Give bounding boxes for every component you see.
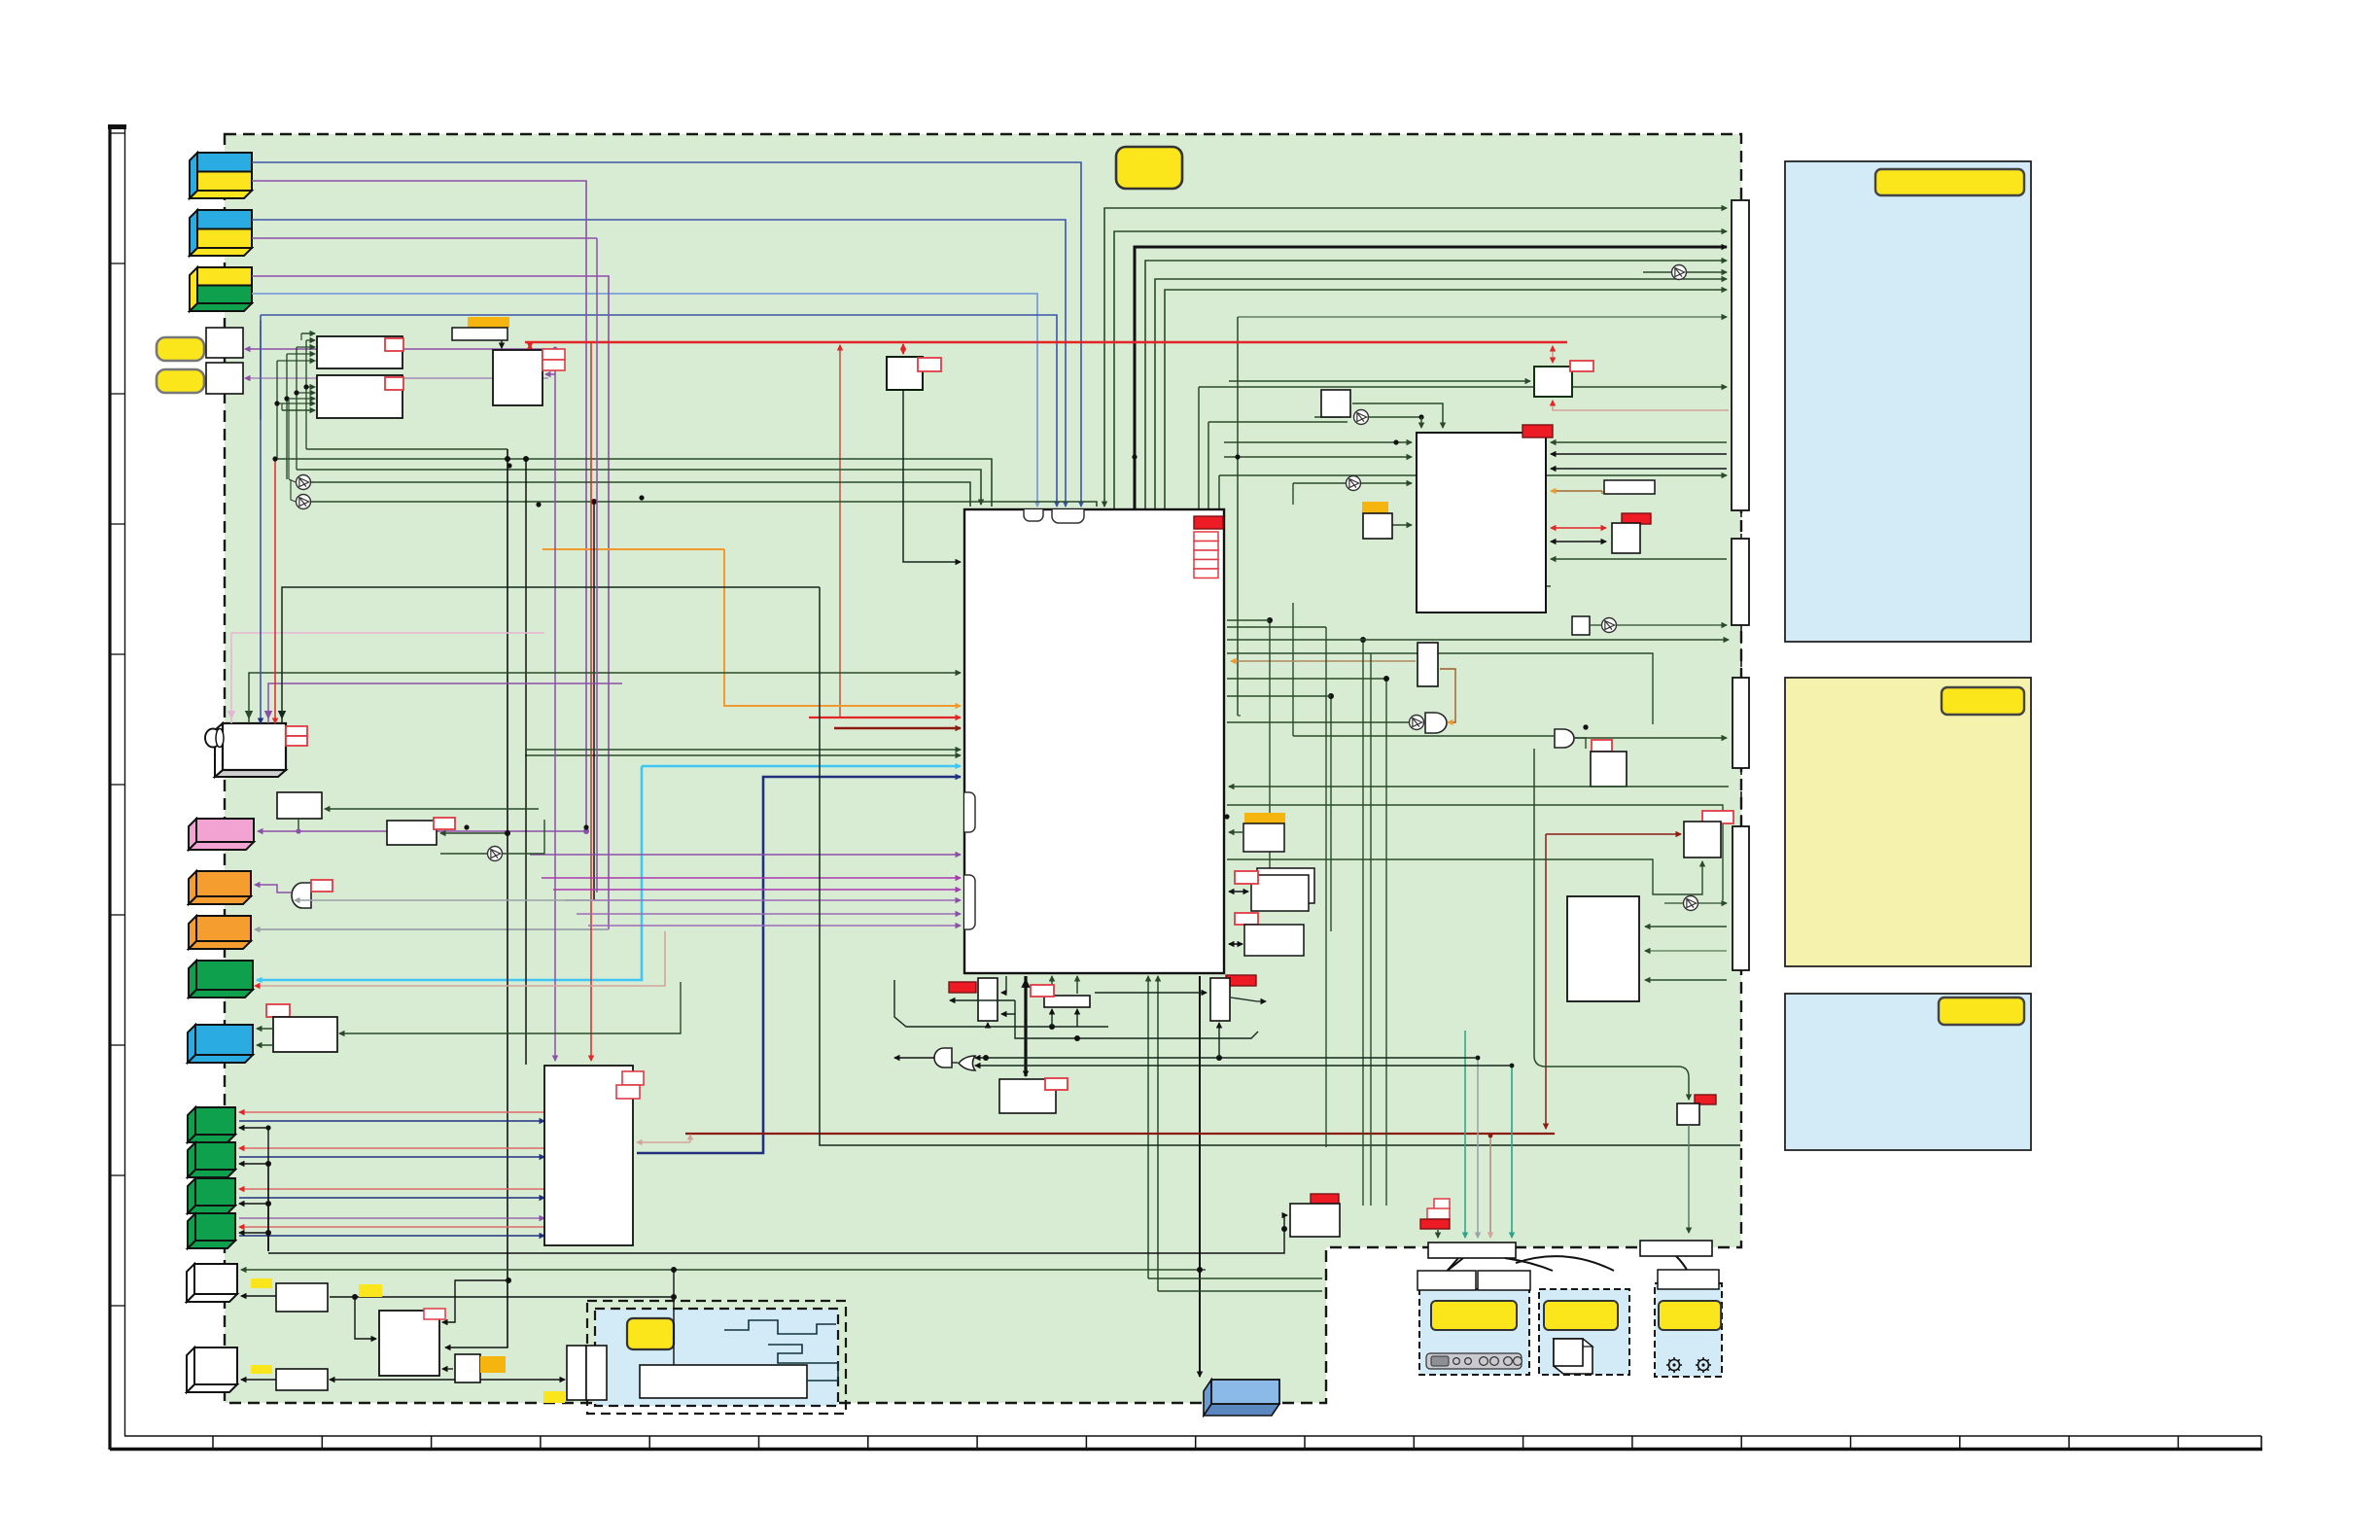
wire blue bus jack A to IC	[252, 162, 1081, 507]
wire purple jack A	[252, 181, 586, 827]
box C bottom	[379, 1309, 445, 1376]
wire dark green into IC left	[525, 754, 961, 756]
wire blue stub left	[260, 321, 262, 420]
wire bus CPU to connector (4)	[1145, 261, 1727, 508]
box near K2	[251, 1365, 328, 1390]
output pill D1 (yellow)	[157, 337, 204, 361]
bus into decoder W1/W2	[305, 340, 307, 449]
bottom panel P3 (accessories)	[1655, 1270, 1722, 1377]
box with gold tag mid right	[1362, 502, 1392, 539]
buffer into O	[1347, 476, 1361, 491]
connector bars right edge	[1732, 200, 1749, 510]
purple stub into M	[545, 373, 555, 375]
bottom connector box J1	[1428, 1242, 1516, 1258]
main board region (green, dashed)	[225, 134, 1741, 1403]
IC bottom risers	[1051, 976, 1053, 994]
wire dark red into IC	[834, 727, 961, 729]
box beside D2	[206, 363, 243, 394]
small box under O	[1572, 616, 1590, 635]
links K1-B1, K2-B2	[241, 1295, 276, 1297]
cable arc over to panel 2	[1516, 1256, 1614, 1271]
cable from J2 to panel 3	[1676, 1256, 1688, 1272]
connector pair bottom	[543, 1346, 607, 1403]
red tag stack above J1	[1420, 1199, 1450, 1229]
box Q (with shadow page)	[1235, 868, 1314, 911]
xtal box T	[999, 1078, 1067, 1113]
lines into V from bar	[1645, 926, 1727, 927]
box T1 mid	[887, 357, 941, 390]
red drop into DRAM	[590, 342, 592, 1061]
cable from J1 to panel label 1	[1447, 1258, 1458, 1271]
block O (video processor)	[1417, 425, 1553, 612]
input jack A (blue/yellow)	[190, 153, 252, 198]
wire orange into IC	[724, 549, 961, 706]
box S with gold tag	[1243, 813, 1285, 852]
box R	[1235, 913, 1304, 956]
output pill D2 (yellow)	[157, 369, 204, 393]
purple drop into DRAM	[554, 349, 556, 1061]
branch into box C	[442, 1280, 508, 1322]
wire bus riser right of CPU (7)	[1238, 316, 1727, 318]
narrow regulator box	[1417, 643, 1438, 686]
long verticals center-left	[445, 449, 507, 1347]
box P lower right	[1290, 1194, 1340, 1237]
AND gate U_or	[292, 883, 311, 908]
dark red risers	[1545, 834, 1547, 1129]
right panel 3 (light blue)	[1785, 994, 2031, 1150]
wire bus CPU to connector (2)	[1114, 231, 1727, 508]
wire purple jack B	[252, 237, 597, 239]
jack F1 (orange)	[189, 871, 251, 904]
timing box N1	[949, 978, 997, 1021]
wire bus to connector (10)	[1218, 475, 1220, 508]
decoder W1	[317, 336, 403, 368]
port K2 (white 3D)	[187, 1347, 237, 1392]
wire bus CPU to connector (5)	[1155, 279, 1727, 508]
wire purple jack C	[252, 276, 609, 929]
bottom panel P2 (manual)	[1478, 1271, 1629, 1375]
line into IC y578 (from T1)	[903, 390, 961, 562]
timing box N2	[1210, 975, 1256, 1021]
junction dots bus	[505, 456, 510, 462]
box on purple line (mid-left)	[387, 818, 455, 845]
bus under L1	[894, 980, 1108, 1027]
vertical to blue sink	[1199, 976, 1201, 1377]
verticals right of IC	[1269, 620, 1271, 873]
wire bus to connector (9)	[1207, 422, 1209, 508]
wire gray to orange jack 2	[255, 928, 609, 930]
teal drops to connectors	[1464, 1031, 1466, 1238]
camera/sensor unit (3D white with lens)	[205, 723, 307, 777]
O top feed	[1442, 412, 1444, 428]
board name label (yellow rounded)	[1116, 147, 1182, 189]
camera risers	[231, 633, 544, 723]
S/Q/R arrows into IC right	[1229, 831, 1242, 833]
green line into T2	[1229, 380, 1530, 382]
right panel 1 (light blue)	[1785, 161, 2031, 642]
wire bus CPU to connector (1)	[1104, 208, 1727, 507]
box W right	[1684, 811, 1733, 857]
wire bus CPU to connector (6)	[1165, 290, 1727, 508]
main IC (large white block)	[964, 509, 1224, 973]
blue sink 3D box	[1204, 1380, 1279, 1416]
NAND gate	[1410, 716, 1424, 730]
jack G (green)	[189, 961, 253, 997]
input jack B (blue/yellow)	[190, 210, 252, 256]
jack E (pink)	[189, 819, 254, 850]
line into N2	[1095, 992, 1207, 994]
N1 nets	[1001, 976, 1006, 993]
black long horizontals	[820, 587, 1740, 1145]
jack H (blue)	[188, 1025, 253, 1063]
box X2 under AND2	[1591, 740, 1627, 787]
bottom connector box J2	[1640, 1241, 1712, 1256]
wire purple to pills	[245, 348, 555, 350]
bottom panel P1 (remote)	[1417, 1271, 1529, 1375]
long line into port K1	[241, 1269, 1206, 1271]
wire with buffer to connector	[1643, 271, 1727, 273]
buffer near box M	[488, 847, 503, 861]
tan line into IC right y680	[1231, 660, 1416, 662]
memory slot 4 (green)	[188, 1213, 235, 1248]
wire dark red bottom rail	[685, 1133, 1555, 1135]
osc box L1	[1031, 985, 1090, 1007]
switch box M	[493, 349, 565, 405]
bus bundle to IC area	[306, 448, 507, 450]
wide box with gold tag	[452, 317, 509, 348]
extra W1/W2 pins	[301, 332, 315, 334]
junction dots assorted	[507, 463, 511, 468]
relay box on J2 path	[1695, 1095, 1716, 1104]
wire purple to pink jack	[258, 830, 586, 832]
line into IC y771	[525, 749, 961, 751]
box T2 under red rail right	[1534, 361, 1593, 397]
tan wire into green jack	[255, 931, 665, 986]
red drop into M top	[529, 344, 531, 348]
DRAM block	[544, 1066, 644, 1245]
buffer pair left	[297, 475, 311, 490]
box X with red tag	[1612, 513, 1651, 553]
box to O	[1392, 524, 1412, 526]
box D bottom	[455, 1354, 506, 1382]
purple line slot4	[239, 1217, 544, 1219]
verticals cluster right of IC	[1325, 627, 1327, 1147]
IC to block O lines	[1224, 441, 1412, 443]
memory slot 2 (green)	[188, 1142, 235, 1177]
wire bus to connector (8)	[1198, 387, 1200, 508]
thick link IC to timing box	[1024, 976, 1027, 1076]
chart frame bottom ruler	[110, 1436, 2262, 1450]
purple bus into IC	[530, 854, 961, 856]
right panel 2 (pale yellow)	[1785, 678, 2031, 966]
buffer W right	[1684, 896, 1698, 911]
red rail drop right into T2	[1552, 346, 1554, 363]
long green into IC right	[1229, 786, 1729, 787]
block V	[1567, 896, 1639, 1001]
wire blue riser to IC	[261, 315, 1057, 507]
memory slot 3 (green)	[188, 1178, 235, 1213]
wire blue bus jack B to IC	[252, 220, 1066, 507]
box beside D1	[206, 328, 243, 358]
brown loop vbox-NAND	[1440, 669, 1455, 722]
wire blue jack C to IC	[252, 294, 1037, 507]
wire red into IC	[809, 717, 961, 718]
port K1 (white 3D)	[187, 1264, 237, 1302]
box above pink jack	[277, 792, 322, 819]
AND/OR pair lower	[934, 1048, 952, 1067]
tan branch from T2 bottom	[1553, 401, 1729, 410]
input jack C (yellow/green)	[190, 267, 252, 311]
line to box above pink	[325, 808, 539, 810]
wire red power rail	[525, 341, 1567, 344]
jack F2 (orange)	[189, 916, 251, 949]
line into IC y692 (from camera riser)	[249, 673, 961, 723]
chart frame left ruler	[108, 124, 126, 1450]
wire bus CPU to connector (3, thick)	[1135, 247, 1727, 508]
memory slot 1 (green)	[188, 1107, 235, 1142]
long path to connector J2	[1533, 749, 1535, 1056]
net right of B boxes	[330, 1296, 674, 1298]
box beside O right	[1604, 480, 1655, 494]
AND gate 2	[1555, 729, 1574, 748]
box feeding buffer	[1321, 390, 1350, 417]
decoder W2	[317, 375, 403, 418]
gate nets	[894, 1057, 934, 1059]
slots return bus	[239, 1127, 268, 1129]
cable from J1 to panel label 2	[1505, 1258, 1553, 1271]
red rail drop to T1	[902, 344, 904, 354]
wire cyan from green jack	[257, 766, 642, 980]
DDR wire pairs	[239, 1111, 544, 1113]
wire navy to IC	[637, 777, 961, 1153]
mid horizontals	[1227, 805, 1723, 900]
O right side arrows	[1551, 441, 1727, 443]
bottom-left sub panel (dashed, light blue)	[587, 1301, 846, 1414]
box beside blue jack	[266, 1004, 290, 1017]
tan stub DRAM to rail	[637, 1141, 690, 1143]
red riser to rail (regulator)	[839, 345, 841, 717]
box near K1	[251, 1278, 382, 1312]
